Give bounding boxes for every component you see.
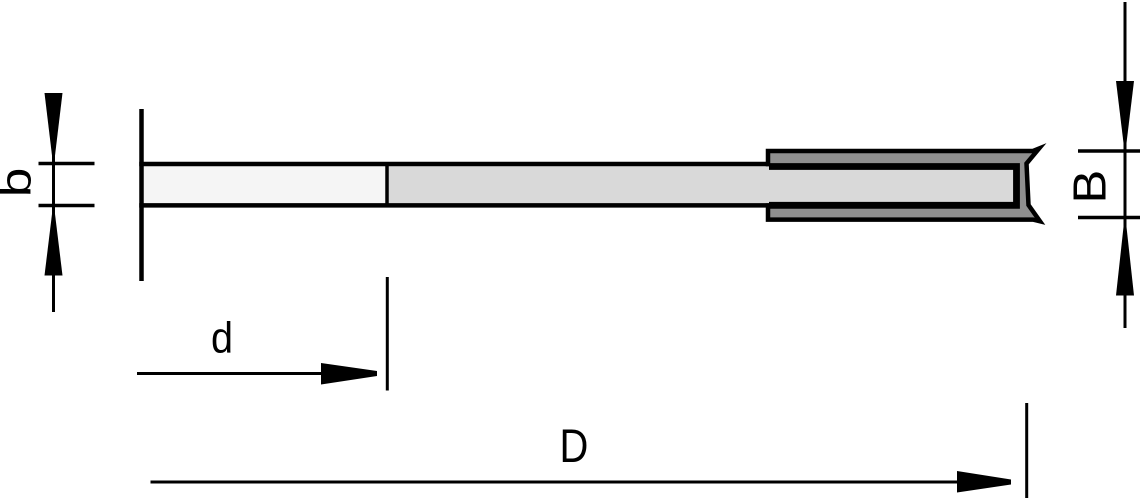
blade top edge [139,162,770,167]
dimension D: right arrow [957,471,1011,493]
dimension D: extension line [1025,403,1028,498]
dimension B: top tick [1078,149,1140,153]
svg-text:b: b [0,168,40,198]
carbide tooth (dark outer tip with V-notch) [768,149,1040,222]
svg-text:B: B [1065,170,1116,204]
blade outline inside tooth (thicker, 3 sides) [769,167,1017,206]
svg-text:D: D [560,421,589,473]
dimension d: horizontal line [137,372,330,375]
dimension d: right arrow [321,363,377,385]
divider between hub and body at d [385,164,389,206]
blade bottom edge [139,203,770,208]
dimension B: down arrow [1116,81,1134,143]
dimension b: top tick [39,162,95,166]
dimension b: vertical line [52,155,55,312]
dimension B: vertical line [1124,2,1127,328]
dimension b: up arrow [45,214,63,276]
dimension B: bottom tick [1078,216,1140,220]
svg-text:d: d [211,313,233,362]
dimension D: horizontal line [151,481,966,484]
blade body (darker) fill [387,166,1013,203]
dimension b: down arrow [45,93,63,156]
dimension d: extension line [386,277,389,391]
blade hub (light) fill [142,164,388,205]
dimension b: bottom tick [39,204,95,208]
blade left flange line [139,109,144,281]
dimension B: up arrow [1116,227,1134,296]
